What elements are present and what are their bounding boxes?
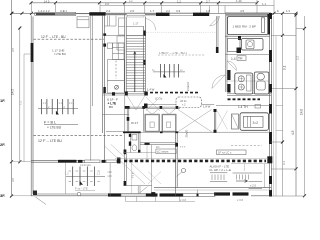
stair arrow — [134, 52, 136, 92]
top dim tier2 — [100, 5, 274, 7]
dark dashed right section — [228, 98, 261, 100]
stair bottom wall — [103, 94, 148, 95]
svg-text:x8 2x: x8 2x — [180, 99, 187, 103]
svg-text:1.2: 1.2 — [97, 172, 101, 176]
closet top-left — [77, 17, 89, 28]
cabinet grid upper hall — [113, 43, 125, 60]
dashed centerline — [115, 61, 117, 79]
ticks tier3 — [11, 12, 298, 15]
bottom-left leader diagonal — [36, 197, 47, 205]
label box bottom center — [217, 150, 247, 155]
wall y187.5 — [154, 187, 271, 189]
bottom-left corner post — [33, 191, 37, 196]
svg-text:7.2: 7.2 — [19, 101, 23, 105]
svg-text:1.4 W: 1.4 W — [147, 88, 155, 92]
left eave line — [24, 54, 31, 162]
svg-text:14.5: 14.5 — [11, 89, 15, 95]
svg-text:1.1: 1.1 — [69, 101, 73, 105]
thin vertical x132 lower — [131, 163, 133, 194]
left dim ticks — [10, 12, 21, 198]
bottom center: circle symbol — [182, 169, 186, 173]
hall door swings — [127, 96, 145, 111]
columns row middle — [161, 64, 179, 78]
top window mid — [127, 13, 145, 15]
entrance hall wall x216.5 — [216, 16, 218, 53]
column node — [103, 44, 106, 47]
right dim vertical x276 — [275, 36, 277, 196]
top dim tier1 — [31, 2, 257, 4]
svg-text:2F.: 2F. — [0, 142, 5, 147]
closet strip wall left — [91, 16, 93, 161]
top-left window band — [35, 12, 76, 15]
svg-text:2.0x2.0: 2.0x2.0 — [186, 81, 190, 91]
label box LC — [156, 149, 176, 154]
right dim vertical outer — [295, 13, 297, 196]
knob circle on bottom wall — [77, 192, 81, 196]
long wall x176 — [176, 133, 178, 196]
svg-text:x30: x30 — [108, 174, 113, 178]
left wall black segment — [31, 43, 34, 62]
wall under bedroom — [225, 35, 270, 37]
bottom wall window band right — [183, 194, 215, 197]
svg-text:+ LTE BU: + LTE BU — [47, 126, 62, 130]
left room right wall — [103, 16, 105, 161]
vertical x147 — [146, 145, 148, 162]
svg-text:1.3: 1.3 — [286, 9, 290, 13]
corridor wall x125 — [124, 133, 126, 186]
ticks tier1 — [30, 1, 259, 4]
toilet box — [254, 72, 268, 94]
left outer wall — [31, 15, 33, 196]
dim drop verticals — [32, 0, 275, 14]
wall y104.6 segments — [148, 104, 271, 107]
door V corridor right — [217, 111, 228, 130]
svg-text:F xx - LTE: F xx - LTE — [75, 187, 88, 191]
room W walls — [127, 109, 143, 132]
svg-text:14.0: 14.0 — [300, 109, 304, 115]
svg-text:12 F' -- LTE - BU: 12 F' -- LTE - BU — [41, 35, 66, 39]
column group lower-left room — [73, 167, 95, 187]
leader at bottom wall — [140, 187, 148, 194]
right wall black segments — [267, 13, 272, 197]
dim text top — [38, 0, 290, 13]
svg-text:x LC xxx: x LC xxx — [80, 163, 91, 167]
closet box 1 — [145, 115, 159, 132]
svg-text:1.2: 1.2 — [177, 0, 181, 3]
hall line y35.5 — [106, 35, 125, 37]
closet box 2 — [162, 115, 176, 132]
corridor black segments — [227, 70, 230, 80]
svg-text:x.x: x.x — [129, 0, 133, 3]
left dim vertical B — [19, 28, 21, 162]
room below stair — [103, 95, 129, 133]
dashed line upper left room — [34, 38, 105, 40]
X void — [178, 110, 212, 132]
svg-text:LD 2x: LD 2x — [155, 97, 163, 101]
svg-text:4.5: 4.5 — [240, 9, 245, 13]
top wall mid gray — [106, 13, 127, 15]
svg-text:2.2: 2.2 — [296, 56, 300, 60]
closet hanger V 2 — [163, 109, 176, 115]
top wall gray2 — [145, 13, 156, 16]
svg-text:.9: .9 — [276, 9, 279, 13]
svg-text:1.1: 1.1 — [262, 2, 266, 6]
top window right — [170, 13, 194, 15]
interior vertical x110 — [109, 163, 111, 196]
shoe cabinet below — [108, 80, 125, 93]
window in bottom wall — [85, 160, 101, 163]
right outer wall — [270, 13, 272, 196]
entrance door swing — [210, 16, 220, 26]
top wall opening — [76, 13, 90, 15]
stair top compartment — [126, 27, 145, 36]
door arc stair to hall — [145, 19, 155, 31]
svg-text:BU: BU — [109, 105, 113, 109]
columns row left room — [42, 99, 74, 114]
interior vertical — [65, 163, 67, 194]
dashed rounded box — [176, 97, 201, 108]
stair right wall — [144, 17, 146, 93]
dashed line right rooms — [231, 145, 262, 147]
right dim horizontals — [271, 29, 305, 197]
svg-text:L 17: L 17 — [133, 22, 139, 26]
hall line y152 — [123, 151, 156, 153]
stair treads — [126, 36, 145, 92]
left dim vertical A — [11, 0, 13, 196]
top wall right section — [225, 13, 271, 15]
box left of vanity — [232, 114, 239, 129]
door arc washroom — [227, 61, 237, 71]
svg-text:2.0: 2.0 — [130, 9, 135, 13]
stair left wall — [125, 15, 127, 93]
svg-text:3.5: 3.5 — [11, 48, 15, 52]
svg-text:1.4 TH: 1.4 TH — [238, 105, 248, 109]
top dim tier3 — [12, 12, 296, 14]
svg-text:3=2: 3=2 — [253, 121, 259, 125]
black post stair bottom right — [144, 104, 148, 109]
wall y131.6-133 — [123, 131, 141, 133]
svg-text:1F xx LC x: 1F xx LC x — [218, 151, 232, 155]
svg-text:1.4: 1.4 — [231, 57, 236, 61]
vanity box — [240, 113, 269, 131]
svg-text:F = B L: F = B L — [44, 121, 56, 125]
vertical x264.4 — [263, 164, 265, 188]
svg-text:LC: LC — [156, 145, 160, 149]
svg-text:20x20: 20x20 — [185, 129, 189, 137]
svg-text:1 BD F' -- L7E - BU x: 1 BD F' -- L7E - BU x — [159, 51, 188, 55]
left margin grid labels — [0, 98, 5, 198]
busy dotted row with text — [158, 54, 205, 56]
svg-text:2.4: 2.4 — [106, 9, 111, 13]
svg-text:2.0: 2.0 — [105, 2, 109, 6]
left dim extensions — [11, 161, 31, 195]
closet hanger V 1 — [146, 109, 159, 115]
svg-text:x 2.0: x 2.0 — [250, 184, 257, 188]
bottom wall of big left room — [32, 161, 85, 163]
dashed line lower — [34, 134, 124, 136]
bottom right cluster B — [233, 172, 263, 174]
svg-text:x30: x30 — [108, 170, 113, 174]
bedroom box — [228, 17, 269, 35]
wall y107.5 — [125, 107, 180, 109]
right outer secondary line — [273, 16, 275, 196]
dim line y142 right — [271, 141, 283, 143]
wall y185 short — [124, 184, 152, 186]
vertical x152 — [151, 145, 153, 194]
closet box — [228, 39, 241, 52]
door arc into middle room — [212, 75, 225, 89]
svg-text:LC xxxxx: LC xxxxx — [157, 150, 169, 154]
short verticals at bottom wall — [138, 186, 197, 193]
dotted line upper — [146, 31, 216, 33]
big diagonals door swings lower-left hall — [105, 145, 152, 185]
svg-text:FL HP = 2 + L-E: FL HP = 2 + L-E — [210, 168, 232, 172]
svg-text:2.2: 2.2 — [166, 9, 170, 13]
cells left of stair top — [119, 18, 125, 35]
bottom wall black seg left — [108, 193, 121, 196]
wall y143.7 — [140, 143, 177, 145]
black segs on wall y107.5 — [125, 106, 179, 109]
svg-text:12 F' -- LTE BU: 12 F' -- LTE BU — [38, 139, 62, 143]
tall cabinet left of stair — [108, 60, 125, 81]
right dim vertical far — [304, 16, 306, 196]
svg-text:x 3.6: x 3.6 — [180, 198, 187, 202]
svg-text:1.1: 1.1 — [59, 101, 63, 105]
corridor wall x225 — [225, 16, 227, 92]
door leaf — [261, 18, 264, 33]
svg-text:F1 x: F1 x — [131, 172, 135, 178]
top wall black segment2 — [156, 13, 170, 16]
duct verticals top — [105, 16, 117, 26]
WC tank — [132, 135, 137, 140]
right small dim ticks — [276, 106, 283, 131]
bath box — [235, 73, 253, 94]
WC bowl — [132, 145, 137, 151]
top wall black segment1 — [89, 12, 105, 15]
dim line through washroom — [225, 80, 269, 82]
bottom wall gray band — [121, 194, 146, 197]
svg-text:1.1: 1.1 — [43, 101, 47, 105]
wall y94 — [227, 94, 271, 96]
svg-text:1.7: 1.7 — [150, 9, 155, 13]
washer box — [242, 39, 264, 51]
right dim line short — [282, 13, 284, 196]
top wall black segment3 — [193, 13, 209, 16]
right dim ticks — [281, 14, 306, 198]
below-wall stub lines — [126, 197, 180, 202]
svg-text:1 BED RM - 2 BP: 1 BED RM - 2 BP — [233, 25, 256, 29]
svg-text:1.4C: 1.4C — [236, 0, 242, 3]
svg-text:3F.: 3F. — [0, 193, 5, 198]
svg-text:/ LTE BU: / LTE BU — [54, 52, 66, 56]
wall x215 — [214, 109, 216, 132]
svg-text:x x x: x x x — [180, 145, 186, 148]
svg-text:4.5: 4.5 — [291, 130, 295, 135]
bottom wall black segments — [146, 192, 249, 197]
svg-text:14.5: 14.5 — [44, 0, 50, 3]
svg-text:2.7: 2.7 — [206, 0, 210, 3]
svg-text:1.8 W: 1.8 W — [203, 105, 211, 109]
svg-text:1.8: 1.8 — [206, 9, 211, 13]
svg-text:x 3.6: x 3.6 — [237, 198, 244, 202]
wall row2 bottom — [225, 54, 270, 56]
black seg wall x104 bottom — [103, 87, 105, 93]
svg-text:TH: TH — [238, 57, 243, 61]
svg-text:W 4T: W 4T — [131, 121, 138, 125]
bottom right cluster A — [210, 173, 227, 182]
WC room walls — [130, 133, 140, 153]
bottom wall thin left part — [31, 194, 120, 196]
svg-text:1.2: 1.2 — [65, 172, 69, 176]
svg-text:3.1: 3.1 — [282, 161, 286, 165]
svg-text:4.5: 4.5 — [11, 178, 15, 182]
svg-text:9.1: 9.1 — [283, 65, 287, 70]
svg-text:3.9: 3.9 — [176, 9, 181, 13]
svg-text:x 2: x 2 — [182, 103, 186, 107]
svg-text:1F.: 1F. — [0, 98, 5, 103]
